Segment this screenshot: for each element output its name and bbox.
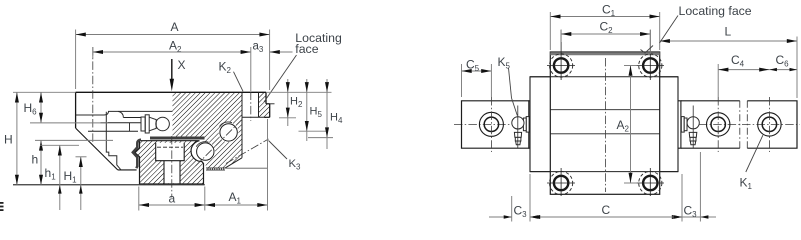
- thread dashes in counterbore: [157, 146, 183, 148]
- carriage vertical centerline (plan): [605, 58, 607, 192]
- svg-text:C4: C4: [731, 53, 745, 69]
- label X with arrow: [170, 58, 186, 91]
- svg-text:a: a: [169, 192, 176, 206]
- ball contact 45-deg centerline: [196, 120, 242, 166]
- rail section hatching: [135, 141, 204, 184]
- label Locating face (left view): [264, 31, 342, 102]
- svg-text:K1: K1: [740, 176, 753, 192]
- ball (upper): [220, 124, 237, 141]
- leg 45-deg cut to seal: [225, 158, 242, 169]
- upper arm bottom edge / K2 slot bottom: [242, 116, 265, 118]
- dimension C1: [550, 3, 659, 51]
- svg-text:L: L: [725, 25, 732, 39]
- main horizontal centerline: [454, 123, 800, 125]
- svg-text:C3: C3: [684, 204, 698, 220]
- svg-text:H4: H4: [330, 112, 343, 126]
- carriage bolt hole top-left: [547, 30, 575, 80]
- ball (lower): [197, 143, 214, 160]
- svg-text:H5: H5: [310, 106, 323, 120]
- cropped page text at left edge: [0, 202, 4, 211]
- carriage left edge: [75, 92, 77, 128]
- dimension h: [32, 140, 114, 185]
- svg-text:K2: K2: [219, 60, 232, 76]
- carriage left 45-deg chamfer / end seal edge: [76, 128, 118, 170]
- carriage body (plan): [550, 52, 659, 194]
- svg-text:h1: h1: [45, 166, 57, 182]
- pocket left wall below slot: [241, 117, 243, 158]
- rail bolt counterbore: [156, 143, 185, 184]
- svg-text:C: C: [602, 203, 611, 217]
- dimension H2: [266, 79, 332, 126]
- rail segment left (with end): [462, 101, 529, 148]
- dimension H6: [24, 92, 109, 123]
- lube plate right: [678, 101, 681, 148]
- dimension A1: [205, 119, 268, 211]
- end cap inner line y122.7: [101, 122, 142, 124]
- mounting surface line: [13, 184, 205, 186]
- label K5 with leader: [498, 55, 518, 116]
- carriage right face upper (locating face): [265, 92, 270, 118]
- end cap inner line y131.3: [88, 130, 138, 132]
- cap joint lines crossing body: [530, 76, 678, 78]
- svg-text:X: X: [178, 58, 186, 72]
- dimension C3 left: [489, 196, 546, 222]
- carriage bolt hole bottom-right: [636, 168, 664, 196]
- end cap inner line (upper): [76, 111, 173, 115]
- svg-text:C5: C5: [466, 58, 480, 74]
- svg-text:H6: H6: [24, 101, 38, 117]
- dimension C: [530, 174, 682, 222]
- rail bolt hole A: [707, 113, 730, 136]
- locating face top edge (thick): [550, 52, 659, 55]
- seal plate under carriage (dark band): [150, 137, 205, 140]
- dimension H4: [308, 79, 343, 149]
- dimension C2: [561, 20, 650, 55]
- grease nipple left (plan): [512, 117, 529, 145]
- rail outline: [135, 141, 204, 184]
- dimension H5: [299, 79, 328, 141]
- right face step edge extension: [266, 103, 275, 105]
- grease nipple (front view, left half): [141, 115, 169, 133]
- ball track arcs: [196, 122, 232, 147]
- lower seal retaining coil (dark): [206, 167, 225, 170]
- dimension A: [76, 20, 270, 90]
- carriage top surface: [76, 91, 266, 93]
- label K2 with leader: [219, 60, 244, 92]
- label K1 with leader: [740, 135, 763, 191]
- svg-text:C6: C6: [776, 53, 790, 69]
- svg-text:H1: H1: [64, 169, 78, 185]
- end cap inner vertical x129.5: [129, 123, 131, 132]
- carriage bolt hole bottom-left: [547, 168, 575, 196]
- dimension a: [139, 187, 205, 211]
- end seal bottom edge: [118, 169, 137, 171]
- svg-text:H2: H2: [290, 96, 303, 110]
- svg-text:face: face: [295, 42, 318, 56]
- rail bolt hole B (K1): [758, 113, 781, 136]
- svg-text:Locating face: Locating face: [679, 4, 752, 18]
- dimension C6: [769, 53, 797, 71]
- body internal slot lines: [550, 109, 659, 111]
- lube plate left: [529, 101, 530, 148]
- dimension A2 (plan): [615, 66, 638, 184]
- label Locating face (plan) with leader: [641, 4, 752, 53]
- rail edges right of carriage: [681, 101, 797, 148]
- end caps (plan, behind body): [530, 77, 678, 172]
- end seal lower step: [106, 112, 121, 170]
- rail / X centerline: [171, 136, 173, 198]
- end cap inner corner to nipple line: [118, 111, 123, 117]
- carriage bolt centerline (left): [92, 47, 94, 142]
- svg-text:A: A: [171, 20, 179, 34]
- dimension L: [660, 25, 797, 99]
- dimension C3 right: [666, 152, 716, 222]
- seal wrap on rail left shoulder (dark): [133, 140, 141, 169]
- dimension C5: [462, 58, 492, 98]
- svg-text:C3: C3: [514, 204, 528, 220]
- rail break lines: [740, 101, 748, 148]
- svg-text:a3: a3: [253, 41, 264, 55]
- svg-text:A1: A1: [229, 190, 242, 206]
- svg-text:K3: K3: [289, 158, 302, 172]
- K2 lube port slot walls: [242, 92, 259, 117]
- K3 channel centerline: [226, 139, 269, 164]
- label K3 with leader: [269, 141, 302, 172]
- carriage section hatching (right half): [173, 92, 270, 168]
- grease nipple right (plan): [681, 117, 699, 145]
- svg-text:C1: C1: [602, 3, 616, 19]
- rail bolt hole (left segment): [479, 112, 503, 136]
- dimension H1: [64, 157, 87, 210]
- end seal bottom edge (right half, behind section): [225, 167, 267, 169]
- svg-text:C2: C2: [600, 20, 614, 36]
- svg-text:A2: A2: [169, 39, 182, 55]
- svg-text:H: H: [4, 133, 13, 147]
- dimension h1: [40, 145, 79, 210]
- white cutouts: balls, rail bolt counterbore: [156, 122, 239, 183]
- carriage bolt hole top-right: [636, 30, 664, 80]
- svg-text:h: h: [32, 153, 39, 167]
- dimension a3: [253, 41, 293, 55]
- end cap inner line y117.5: [123, 117, 141, 119]
- K2 port centerline: [250, 92, 252, 122]
- dimension H: [4, 92, 76, 185]
- dimension A2: [93, 39, 251, 92]
- dimension C4: [718, 53, 769, 97]
